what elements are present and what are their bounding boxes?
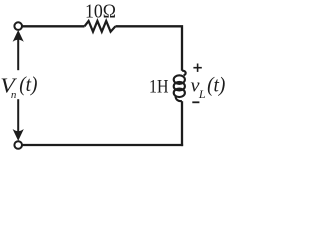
resistor R (10 ohm) zigzag xyxy=(85,21,116,32)
svg-text:L: L xyxy=(198,87,206,101)
arrow shaft upper xyxy=(17,40,19,71)
wire top-left horizontal segment xyxy=(22,25,84,27)
inductor L1 coil (1H) xyxy=(174,71,186,102)
svg-text:1H: 1H xyxy=(149,76,169,97)
terminal bottom-left (open circle) xyxy=(14,141,22,149)
svg-text:10Ω: 10Ω xyxy=(85,1,116,23)
svg-text:(t): (t) xyxy=(19,72,37,96)
wire right vertical below inductor xyxy=(181,101,183,146)
svg-text:n: n xyxy=(11,89,17,101)
node label Vn(t) xyxy=(0,72,37,101)
node label vL(t) xyxy=(191,72,226,101)
arrow shaft lower xyxy=(17,99,19,131)
arrow up (source polarity, toward top terminal) xyxy=(13,30,24,42)
minus sign (inductor voltage polarity) xyxy=(192,101,199,103)
wire top-right horizontal + right vertical down to inductor xyxy=(115,26,182,71)
plus sign (inductor voltage polarity) xyxy=(193,64,201,72)
arrow down (toward bottom terminal) xyxy=(13,129,24,141)
svg-text:(t): (t) xyxy=(207,72,225,96)
terminal top-left (open circle) xyxy=(14,22,22,30)
wire bottom horizontal xyxy=(22,144,183,146)
